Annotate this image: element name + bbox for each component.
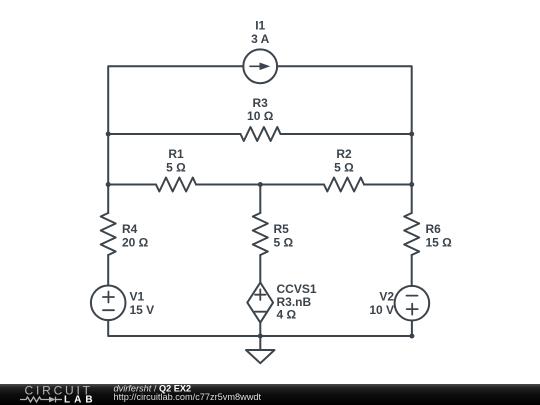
svg-text:R2: R2 bbox=[336, 147, 352, 161]
resistor R6 bbox=[404, 213, 419, 255]
svg-text:20 Ω: 20 Ω bbox=[122, 236, 149, 250]
wire R4 to V1 bbox=[107, 255, 109, 286]
svg-text:LAB: LAB bbox=[64, 395, 97, 405]
resistor R3 bbox=[241, 127, 281, 141]
wire right rail mid bbox=[411, 134, 413, 185]
wire top left segment bbox=[108, 66, 243, 134]
svg-text:4 Ω: 4 Ω bbox=[277, 308, 297, 322]
voltage source V1 bbox=[91, 286, 126, 321]
ground bbox=[246, 350, 275, 363]
wire R1 lead left bbox=[108, 184, 156, 186]
node left R1 junction bbox=[106, 182, 111, 187]
svg-text:10 Ω: 10 Ω bbox=[247, 109, 274, 123]
svg-text:R1: R1 bbox=[168, 147, 184, 161]
wire R4 top lead bbox=[107, 185, 109, 214]
wire R5 to CCVS1 bbox=[259, 255, 261, 283]
svg-text:CCVS1: CCVS1 bbox=[277, 282, 317, 296]
wire V1 to bottom rail bbox=[108, 320, 260, 336]
svg-text:R3: R3 bbox=[253, 96, 269, 110]
resistor R4 bbox=[101, 213, 116, 255]
resistor R5 bbox=[253, 213, 268, 255]
node mid R1 R2 junction bbox=[258, 182, 263, 187]
wire ground lead bbox=[259, 336, 261, 350]
svg-text:5 Ω: 5 Ω bbox=[334, 161, 354, 175]
wire R3 row left bbox=[108, 133, 240, 135]
wire mid node to R2 bbox=[260, 184, 324, 186]
svg-text:I1: I1 bbox=[255, 19, 265, 33]
node right R3 junction bbox=[409, 132, 414, 137]
svg-text:R6: R6 bbox=[426, 222, 442, 236]
svg-text:5 Ω: 5 Ω bbox=[166, 161, 186, 175]
node V2 bottom junction bbox=[409, 334, 414, 339]
wire CCVS1 to bottom rail bbox=[259, 323, 261, 336]
wire bottom rail right bbox=[260, 335, 411, 337]
logo squiggle bbox=[20, 397, 62, 403]
wire left rail mid bbox=[107, 134, 109, 185]
svg-text:R4: R4 bbox=[122, 222, 138, 236]
wire R6 to V2 bbox=[411, 255, 413, 286]
svg-text:R5: R5 bbox=[274, 222, 290, 236]
node ground junction bbox=[258, 334, 263, 339]
svg-text:5 Ω: 5 Ω bbox=[274, 236, 294, 250]
wire top right segment bbox=[277, 66, 412, 134]
resistor R2 bbox=[324, 178, 364, 192]
wire R6 top lead bbox=[411, 185, 413, 214]
resistor R1 bbox=[156, 178, 196, 192]
wire R5 top lead bbox=[259, 185, 261, 214]
wire R2 to right rail bbox=[364, 184, 412, 186]
svg-text:15 V: 15 V bbox=[130, 303, 155, 317]
svg-text:10 V: 10 V bbox=[369, 303, 394, 317]
node left R3 junction bbox=[106, 132, 111, 137]
svg-text:V1: V1 bbox=[130, 290, 145, 304]
svg-text:http://circuitlab.com/c77zr5vm: http://circuitlab.com/c77zr5vm8wwdt bbox=[114, 392, 262, 402]
svg-text:15 Ω: 15 Ω bbox=[426, 236, 453, 250]
wire V2 to bottom rail bbox=[411, 321, 413, 337]
current source I1 bbox=[243, 49, 277, 83]
voltage source V2 bbox=[395, 286, 430, 321]
svg-text:3 A: 3 A bbox=[251, 32, 270, 46]
svg-text:V2: V2 bbox=[379, 290, 394, 304]
dependent source CCVS1 bbox=[247, 283, 273, 323]
wire R1 to mid node bbox=[196, 184, 260, 186]
wire R3 row right bbox=[281, 133, 412, 135]
node right R2 junction bbox=[409, 182, 414, 187]
